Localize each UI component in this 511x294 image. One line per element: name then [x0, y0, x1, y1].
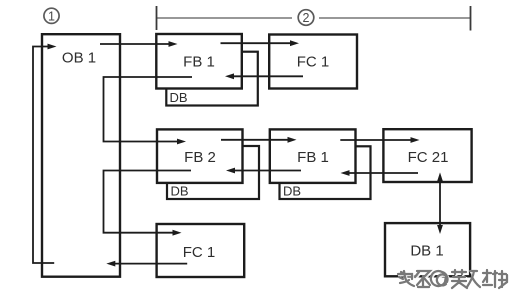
label circle 1: [44, 8, 59, 23]
bracket tick left: [156, 6, 158, 30]
wire FC1 to FB1 row1 return: [225, 73, 303, 79]
box FC 1 row1: [269, 35, 357, 89]
box FB 1 row2: [270, 129, 356, 183]
wire FB1 to FC1 row1 call: [221, 40, 300, 46]
wire FC1 bottom return to OB1: [106, 261, 187, 267]
svg-text:DB: DB: [170, 90, 188, 105]
watermark toutiao at rongjiu keji: [398, 270, 508, 289]
svg-text:DB 1: DB 1: [410, 243, 443, 260]
box FC 1 bottom: [157, 224, 245, 277]
box FB 1 row1: [156, 34, 242, 89]
svg-text:DB: DB: [283, 184, 301, 199]
bracket line for label 2: [157, 17, 471, 19]
svg-text:FC 1: FC 1: [297, 54, 330, 71]
svg-text:FB 1: FB 1: [183, 54, 215, 71]
box OB 1: [42, 34, 120, 277]
wire FB1 row2 to FB2 return: [226, 168, 301, 174]
svg-text:DB: DB: [171, 184, 189, 199]
bracket tick right: [470, 6, 472, 31]
svg-text:FB 2: FB 2: [184, 149, 216, 166]
label circle 2: [298, 10, 314, 26]
box FB 2: [157, 129, 243, 183]
wire FC21 to FB1 row2 return: [341, 170, 419, 176]
instance DB box row1 (behind FB1): [166, 52, 257, 106]
svg-text:FC 1: FC 1: [183, 244, 216, 261]
wire FB1 row2 to FC21 call: [340, 137, 419, 143]
svg-text:OB 1: OB 1: [62, 50, 96, 67]
wire OB1 cycle loop: [33, 44, 57, 263]
wire FC21 to DB1 double arrow: [437, 172, 443, 234]
wire FB1 return to OB1 then call FB2: [104, 77, 193, 144]
svg-text:FB 1: FB 1: [297, 149, 329, 166]
instance DB box row2 right (behind FB1 row2): [280, 146, 371, 199]
svg-text:2: 2: [303, 11, 310, 25]
box FC 21: [383, 129, 471, 182]
wire FB2 to FB1 row2 call: [221, 137, 297, 143]
wire FB2 return to OB1 then call FC1 bottom: [104, 171, 192, 236]
instance DB box row2 left (behind FB2): [167, 146, 259, 199]
box DB 1: [385, 223, 470, 276]
wire OB1 to FB1 row1 call: [100, 41, 178, 47]
svg-text:1: 1: [48, 9, 55, 23]
svg-text:FC 21: FC 21: [408, 149, 449, 166]
